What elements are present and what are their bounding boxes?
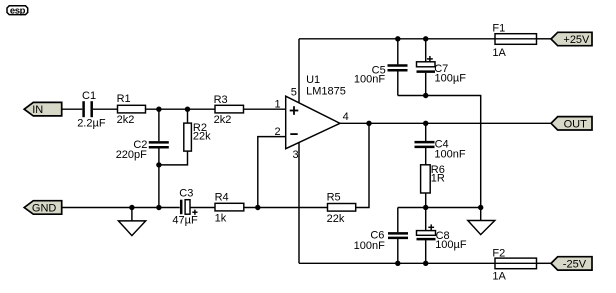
wire R6 to zobel rail <box>425 193 427 208</box>
wire IN to C1 <box>62 108 83 110</box>
wire node A down to C2 <box>158 109 160 141</box>
resistor R1 <box>117 93 146 126</box>
wire pin3 vertical <box>298 142 300 263</box>
junction <box>156 162 161 167</box>
svg-text:1A: 1A <box>492 270 506 282</box>
junction <box>395 261 400 266</box>
wire zobel rail <box>398 207 481 209</box>
fuse F1 <box>492 22 536 59</box>
ground right <box>468 221 495 235</box>
wire fuse F1 to +25V tag <box>537 38 552 40</box>
svg-text:GND: GND <box>32 203 57 215</box>
svg-text:LM1875: LM1875 <box>306 85 346 97</box>
wire C8 bottom <box>425 240 427 263</box>
capacitor C4 <box>415 138 466 160</box>
svg-text:2.2µF: 2.2µF <box>77 118 106 130</box>
svg-text:OUT: OUT <box>564 118 588 130</box>
svg-text:R3: R3 <box>214 94 228 106</box>
resistor R4 <box>215 192 244 225</box>
svg-text:47µF: 47µF <box>172 215 198 227</box>
svg-text:5: 5 <box>291 86 297 98</box>
svg-text:100nF: 100nF <box>354 73 385 85</box>
wire R1 to R3 <box>146 108 216 110</box>
wire GND to C3 <box>62 207 180 209</box>
svg-text:IN: IN <box>32 104 43 116</box>
wire op-amp output <box>340 122 551 124</box>
capacitor C5 <box>354 64 408 85</box>
svg-text:1R: 1R <box>431 173 445 185</box>
svg-text:R5: R5 <box>327 192 341 204</box>
svg-text:220pF: 220pF <box>116 149 147 161</box>
capacitor C1 <box>77 90 106 130</box>
junction <box>423 93 428 98</box>
wire R2 bottom to C2 column <box>159 151 188 165</box>
wire R5 to feedback vertical <box>356 123 369 207</box>
junction <box>185 107 190 112</box>
op-amp U1 <box>274 74 348 161</box>
OUT tag <box>551 117 592 131</box>
svg-text:100nF: 100nF <box>354 240 385 252</box>
svg-text:1: 1 <box>274 98 280 110</box>
wire C4 to R6 <box>425 148 427 165</box>
wire C2 down to GND row <box>158 148 160 207</box>
svg-text:1A: 1A <box>492 47 506 59</box>
svg-text:100nF: 100nF <box>434 149 465 161</box>
+25V tag <box>551 32 592 46</box>
junction <box>156 107 161 112</box>
IN tag <box>24 102 62 116</box>
capacitor C2 <box>116 139 169 161</box>
fuse F2 <box>492 247 536 282</box>
wire R3 to op-amp pin1 <box>244 108 286 110</box>
-25V tag <box>551 257 592 271</box>
svg-text:100µF: 100µF <box>435 239 467 251</box>
svg-text:2k2: 2k2 <box>214 114 232 126</box>
GND tag <box>24 201 62 215</box>
junction <box>423 205 428 210</box>
wire pin2 to feedback node <box>258 137 286 208</box>
resistor R3 <box>214 94 244 126</box>
wire R4 to R5 <box>244 207 328 209</box>
wire C3 to R4 <box>190 207 215 209</box>
wire C5 top <box>397 39 399 65</box>
junction <box>423 36 428 41</box>
svg-text:1k: 1k <box>215 213 227 225</box>
svg-text:2k2: 2k2 <box>117 114 135 126</box>
svg-text:4: 4 <box>343 111 349 123</box>
wire top rail <box>299 38 495 40</box>
wire C7 top <box>425 39 427 62</box>
junction <box>129 205 134 210</box>
svg-text:2: 2 <box>274 126 280 138</box>
junction <box>478 205 483 210</box>
wire fuse F2 to -25V tag <box>537 262 552 264</box>
resistor R6 <box>421 164 445 193</box>
svg-text:3: 3 <box>292 149 298 161</box>
svg-text:F1: F1 <box>492 22 505 34</box>
wire bypass rail <box>398 96 481 208</box>
capacitor C7 <box>417 56 467 84</box>
svg-text:esp: esp <box>10 5 26 16</box>
capacitor C3 <box>172 188 198 227</box>
junction <box>255 205 260 210</box>
svg-text:C3: C3 <box>179 188 193 200</box>
wire pin5 vertical <box>298 39 300 103</box>
svg-text:100µF: 100µF <box>435 72 467 84</box>
junction <box>423 261 428 266</box>
junction <box>423 121 428 126</box>
capacitor C8 <box>417 224 467 251</box>
wire zobel rail to C6 <box>397 208 399 233</box>
svg-text:R1: R1 <box>117 93 131 105</box>
wire left ground stub <box>131 208 133 221</box>
junction <box>366 121 371 126</box>
ground left <box>118 221 145 236</box>
wire output to C4 <box>425 123 427 141</box>
resistor R2 <box>184 122 211 151</box>
svg-text:C1: C1 <box>82 90 96 102</box>
wire C7 bottom <box>425 73 427 96</box>
svg-text:-25V: -25V <box>563 259 587 271</box>
svg-text:22k: 22k <box>193 130 211 142</box>
junction <box>156 205 161 210</box>
wire C8 top <box>425 208 427 231</box>
wire bottom rail <box>299 262 495 264</box>
wire C6 to bottom rail <box>397 239 399 263</box>
wire C1 to R1 <box>93 108 118 110</box>
wire C5 bottom <box>397 72 399 96</box>
wire right ground stub <box>480 208 482 221</box>
resistor R5 <box>327 192 356 225</box>
capacitor C6 <box>354 230 408 253</box>
wire node B down to R2 <box>187 109 189 123</box>
svg-text:+25V: +25V <box>563 34 590 46</box>
ESP logo <box>7 5 28 16</box>
junction <box>395 36 400 41</box>
svg-text:R4: R4 <box>215 192 229 204</box>
svg-text:22k: 22k <box>327 213 345 225</box>
svg-text:F2: F2 <box>492 247 505 259</box>
